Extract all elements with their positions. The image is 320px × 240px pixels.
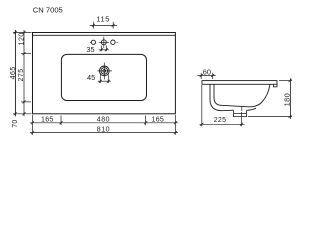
svg-text:45: 45 — [87, 73, 95, 82]
svg-text:60: 60 — [203, 67, 211, 76]
svg-text:CN 7005: CN 7005 — [33, 6, 63, 15]
svg-text:120: 120 — [19, 32, 26, 45]
svg-text:275: 275 — [18, 68, 25, 81]
svg-text:70: 70 — [12, 119, 19, 127]
svg-text:35: 35 — [86, 45, 94, 54]
svg-text:165: 165 — [152, 117, 165, 124]
svg-text:810: 810 — [97, 127, 110, 134]
svg-text:465: 465 — [10, 66, 17, 79]
svg-text:180: 180 — [283, 93, 292, 107]
svg-text:225: 225 — [214, 117, 227, 124]
svg-text:480: 480 — [97, 117, 110, 124]
svg-text:165: 165 — [41, 117, 54, 124]
svg-text:115: 115 — [96, 14, 110, 23]
